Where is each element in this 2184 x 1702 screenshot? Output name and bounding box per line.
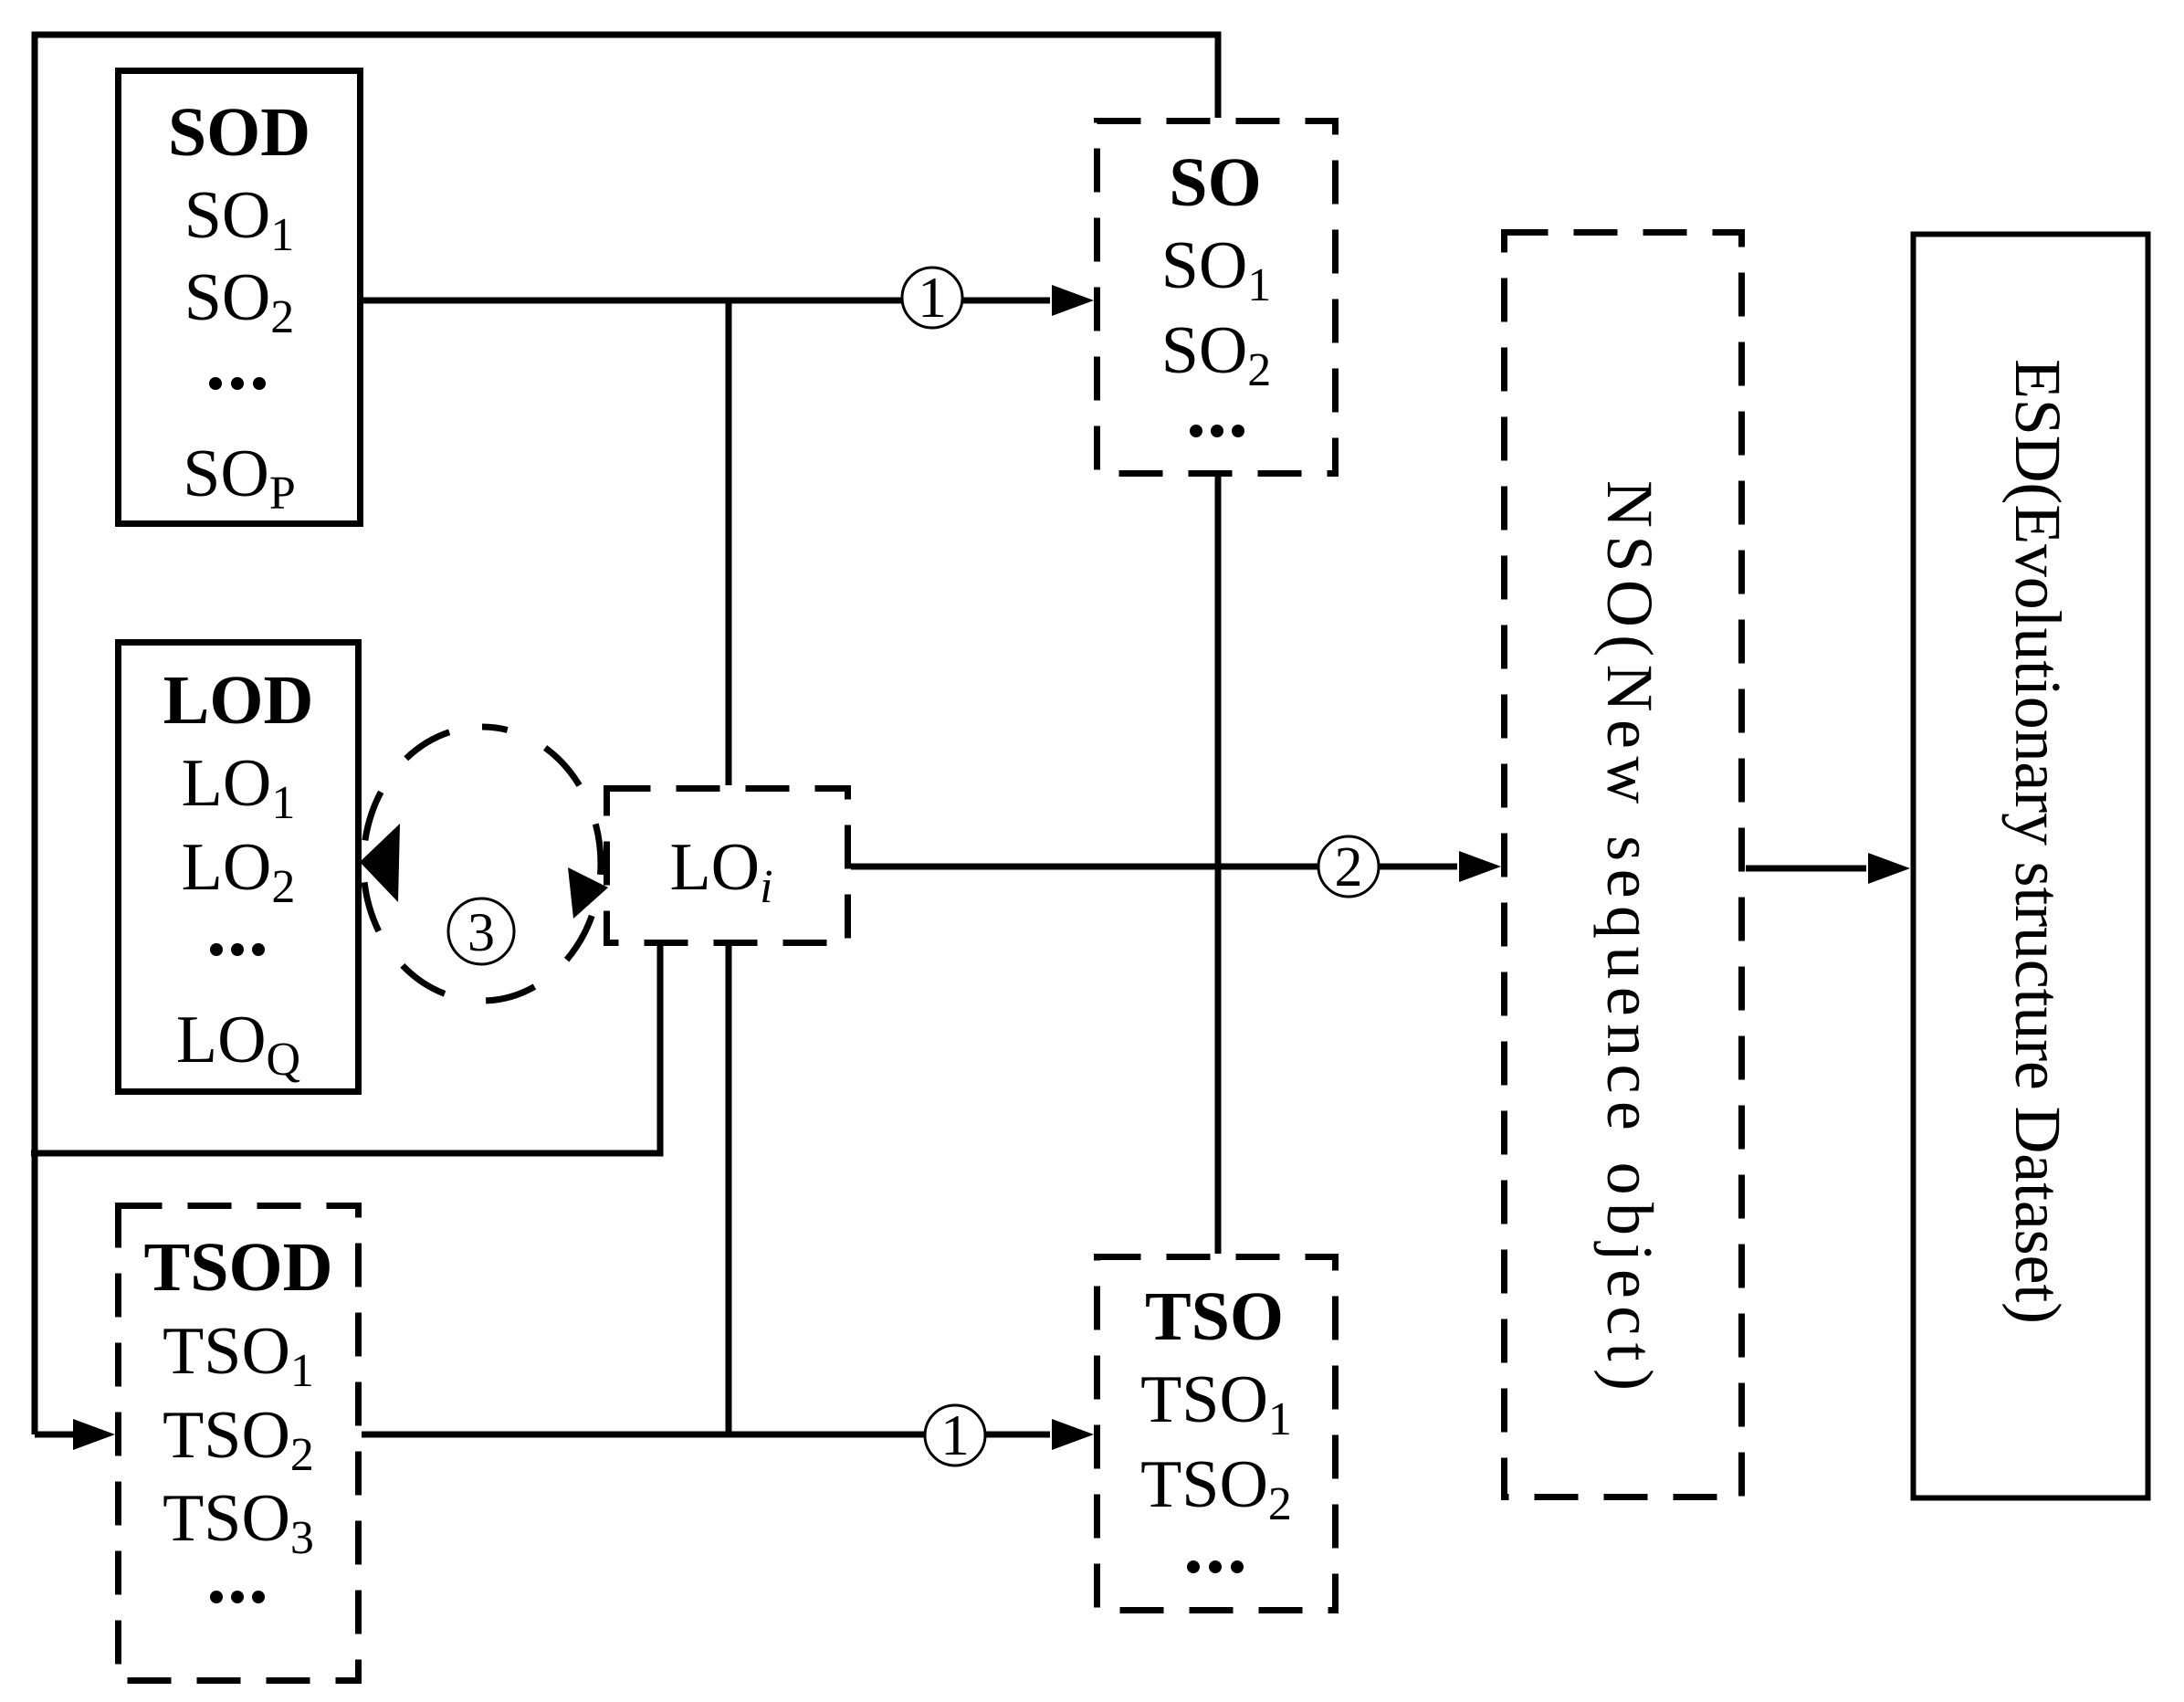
arrowhead into ESD left edge <box>1868 853 1910 884</box>
wire: rail bottom segment toward TSOD <box>35 1432 77 1438</box>
svg-text:NSO(New sequence object): NSO(New sequence object) <box>1593 480 1666 1391</box>
label TSOD dots <box>210 1591 265 1603</box>
wire: LOi bottom to left rail via bottom connector <box>31 946 660 1153</box>
wire: SOD to SO line (step 1) <box>363 298 1050 304</box>
box TSOD (dashed) <box>119 1206 359 1681</box>
label TSO dots <box>1187 1560 1244 1573</box>
wire: TSOD to TSO line (step 1) <box>362 1432 1050 1438</box>
wire: junction vertical from SOD-SO line down to LOi top <box>726 300 732 785</box>
svg-text:2: 2 <box>1335 836 1363 898</box>
loop arrowhead into LOD right edge <box>360 824 400 902</box>
circled number 1 on SOD-SO line <box>902 265 962 330</box>
box LOi (dashed) <box>607 789 848 943</box>
svg-text:LOi: LOi <box>669 830 772 913</box>
circled number 1 on TSOD-TSO line <box>925 1403 985 1467</box>
wire: outer feedback rail from left rail up across top into SO box <box>35 35 1218 1434</box>
box LOD (solid) <box>119 643 359 1092</box>
svg-text:TSOD: TSOD <box>144 1229 333 1306</box>
svg-text:ESD(Evolutionary structure Dat: ESD(Evolutionary structure Dataset) <box>2001 359 2074 1324</box>
wire: LOi to NSO line (step 2) <box>851 864 1457 870</box>
arrowhead into TSOD left edge <box>73 1419 115 1450</box>
circled number 2 on LOi-NSO line <box>1318 836 1379 898</box>
box SO (dashed) <box>1097 121 1336 474</box>
label SOD dots <box>209 377 266 390</box>
loop arrowhead into LOi left edge <box>568 867 608 919</box>
svg-text:LOD: LOD <box>163 662 314 739</box>
box TSO (dashed) <box>1097 1257 1336 1611</box>
arrowhead into TSO left edge <box>1052 1419 1094 1450</box>
wire: LOi bottom vertical down to TSOD-TSO line <box>726 946 732 1434</box>
svg-text:3: 3 <box>467 902 495 962</box>
box SOD (solid) <box>119 71 361 524</box>
loop 3 dashed ellipse between LOD and LOi <box>363 727 601 1001</box>
arrowhead into SO left edge <box>1052 285 1094 316</box>
wire: NSO to ESD arrow <box>1746 866 1866 872</box>
label LOD dots <box>210 943 265 956</box>
svg-text:TSO: TSO <box>1145 1278 1284 1355</box>
wire: SO bottom to TSO top vertical <box>1215 477 1222 1254</box>
box ESD (solid) <box>1914 235 2148 1498</box>
label SO dots <box>1190 425 1244 437</box>
svg-text:1: 1 <box>940 1403 970 1467</box>
arrowhead into NSO left edge <box>1459 851 1501 882</box>
svg-text:SO: SO <box>1169 144 1261 221</box>
circled number 3 inside loop <box>448 898 514 964</box>
svg-text:SOD: SOD <box>168 94 310 171</box>
box NSO (dashed) <box>1505 233 1742 1497</box>
svg-text:1: 1 <box>918 265 947 330</box>
